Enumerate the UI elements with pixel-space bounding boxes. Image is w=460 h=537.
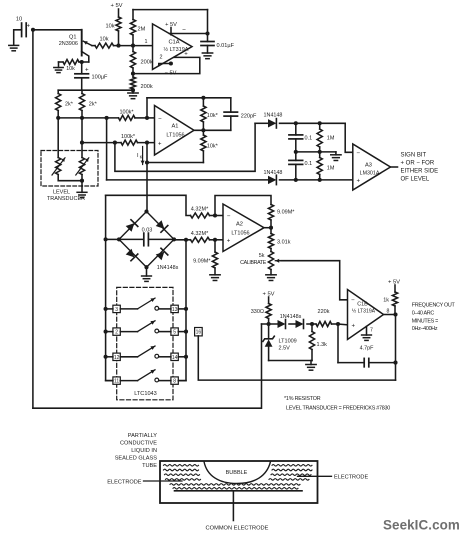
- wire feedback rail drop: [207, 10, 209, 34]
- wire 10k lower to plus node: [147, 162, 203, 164]
- svg-text:½ LT319A: ½ LT319A: [352, 308, 376, 315]
- svg-text:10k*: 10k*: [207, 144, 219, 150]
- wire C1A feedback rail: [133, 9, 208, 11]
- svg-text:1.3k: 1.3k: [317, 342, 328, 348]
- wire input node to C1A pin 1: [133, 39, 153, 45]
- zener LT1009 2.5V: [263, 324, 297, 361]
- svg-text:9.09M*: 9.09M*: [277, 210, 295, 216]
- common electrode plate: [175, 490, 303, 492]
- wire reference row: [262, 323, 317, 325]
- svg-text:1N4148: 1N4148: [264, 170, 283, 176]
- capacitor 0.1 row1: [289, 123, 312, 152]
- svg-text:0.01µF: 0.01µF: [217, 43, 235, 49]
- wire 100uF node down-left: [57, 90, 59, 93]
- pin 8 label: [387, 308, 390, 314]
- svg-text:−: −: [351, 297, 355, 304]
- node left rail row 1: [104, 307, 108, 311]
- wire output feedback drop: [395, 315, 397, 381]
- wire zener 1.3k common: [269, 360, 312, 362]
- ground 0.01uF: [202, 53, 212, 59]
- svg-text:12: 12: [114, 355, 120, 361]
- variable resistor transducer right: [76, 158, 89, 176]
- node upper 100k left: [105, 116, 109, 120]
- wire bottom rail to LT1009 node: [33, 324, 262, 408]
- svg-text:0Hz–400Hz: 0Hz–400Hz: [412, 326, 438, 332]
- wire 4.7pF left to input node: [337, 324, 339, 363]
- node right rail top: [184, 238, 188, 242]
- svg-text:200k: 200k: [141, 60, 153, 66]
- node row1 res tap: [318, 121, 322, 125]
- diode bridge UR 1N4148: [147, 212, 175, 240]
- capacitor 0.1 row2: [289, 152, 312, 180]
- svg-text:TRANSDUCER: TRANSDUCER: [47, 196, 85, 202]
- svg-text:−: −: [227, 213, 231, 220]
- capacitor 220pF: [224, 98, 257, 131]
- svg-text:13: 13: [172, 307, 178, 313]
- node left rail row 2: [104, 330, 108, 334]
- svg-text:3: 3: [115, 307, 118, 313]
- svg-text:SIGN BIT: SIGN BIT: [401, 153, 427, 159]
- wire A1 minus to feedback rail: [146, 98, 148, 118]
- svg-text:1M: 1M: [327, 165, 335, 171]
- resistor 2k* right: [79, 90, 97, 118]
- diode 1N4148 ref B: [280, 314, 304, 329]
- op-amp A2 LT1056: [223, 204, 264, 252]
- wire A1 output row: [194, 129, 231, 131]
- node bridge left vertex: [117, 237, 121, 241]
- node left rail bridge tap: [104, 237, 108, 241]
- svg-text:−: −: [158, 116, 162, 123]
- wire sensor to Q1 base: [33, 29, 82, 31]
- power +5V top-left: [110, 3, 122, 9]
- svg-text:FREQUENCY OUT: FREQUENCY OUT: [412, 303, 456, 309]
- sensor capacitor C-sense value 10: [16, 17, 31, 37]
- svg-text:2.5V: 2.5V: [279, 345, 291, 351]
- svg-text:+: +: [227, 239, 231, 245]
- resistor 1M row2: [317, 152, 335, 180]
- wire transducer right column: [81, 118, 83, 158]
- wire sensor left lead to ground: [14, 30, 22, 45]
- resistor 1M row1: [317, 123, 335, 152]
- wire A2 output: [264, 227, 271, 229]
- wire RC middle row: [296, 151, 336, 153]
- wire level sense B drop: [106, 118, 108, 180]
- note 1% resistor: [284, 396, 321, 402]
- svg-text:SEALED GLASS: SEALED GLASS: [115, 456, 158, 462]
- liquid waves: [164, 465, 313, 490]
- diode 1N4148 ref A: [278, 320, 286, 329]
- svg-text:+: +: [85, 67, 89, 74]
- svg-text:10k: 10k: [66, 66, 75, 72]
- svg-text:+: +: [27, 24, 31, 30]
- potentiometer 5k CALIBRATE: [240, 252, 281, 275]
- label partially conductive liquid: [115, 433, 158, 469]
- op-amp A3 LM301A: [353, 144, 391, 190]
- wire transducer bottom join: [58, 175, 82, 187]
- label common electrode: [206, 525, 269, 531]
- svg-text:LEVEL: LEVEL: [53, 190, 70, 196]
- svg-text:−: −: [356, 150, 360, 157]
- node A1 minus feedback tap: [145, 116, 149, 120]
- svg-text:EITHER SIDE: EITHER SIDE: [401, 169, 439, 175]
- wire C1B output: [384, 314, 396, 316]
- wire switch S2 right: [159, 331, 186, 333]
- node transducer common: [80, 179, 84, 183]
- switch S2 arm: [138, 321, 156, 332]
- node C1B output: [393, 312, 397, 316]
- node A1 plus input: [145, 141, 149, 145]
- wire calibrate wiper to C1B: [281, 261, 348, 300]
- svg-text:OF LEVEL: OF LEVEL: [401, 176, 430, 182]
- wire switch S2 left: [106, 331, 138, 333]
- wire switch S1 right: [159, 308, 186, 310]
- svg-text:9.09M*: 9.09M*: [193, 259, 211, 265]
- wire bridge right row: [175, 239, 191, 241]
- wire emitter node to C1A input node: [119, 45, 134, 47]
- svg-text:10k: 10k: [99, 37, 108, 43]
- svg-text:LT1056: LT1056: [231, 230, 249, 236]
- node 4.7pF right: [393, 361, 397, 365]
- glass tube outline: [160, 461, 318, 503]
- svg-text:5: 5: [173, 330, 176, 336]
- wire switch S4 right: [159, 380, 186, 382]
- svg-text:330Ω: 330Ω: [251, 309, 264, 315]
- wire A2 feedback loop: [215, 196, 271, 216]
- op-amp C1A half LT319A: [153, 24, 193, 70]
- switch S3 arm: [138, 346, 156, 357]
- wire A1 minus input row: [58, 117, 154, 119]
- wire switch S3 left: [106, 356, 138, 358]
- svg-text:10k*: 10k*: [207, 113, 219, 119]
- svg-text:0.1: 0.1: [305, 161, 313, 167]
- label frequency out: [412, 303, 456, 333]
- resistor 10k pull-up from +5V: [105, 9, 121, 46]
- wire transducer left column: [57, 118, 59, 158]
- svg-text:MINUTES =: MINUTES =: [412, 318, 438, 324]
- wire 100uF bottom to 200k ground: [58, 89, 133, 91]
- svg-text:100k*: 100k*: [121, 134, 136, 140]
- svg-text:*1% RESISTOR: *1% RESISTOR: [284, 396, 321, 402]
- wire A1 plus input row: [82, 142, 155, 144]
- pin 7 ground C1B: [362, 327, 373, 341]
- node right rail row 1: [184, 307, 188, 311]
- wire switch S4 left: [106, 380, 138, 382]
- node lower 100k left: [113, 141, 117, 145]
- switch S3 pin 14 square: [171, 353, 178, 361]
- svg-text:7: 7: [370, 328, 373, 334]
- resistor 220k: [316, 309, 338, 326]
- resistor 10k* feedback lower: [201, 130, 219, 162]
- ground reference: [306, 361, 316, 371]
- svg-text:A1: A1: [172, 123, 179, 129]
- resistor 4.32M* lower: [191, 231, 224, 242]
- label right electrode: [334, 475, 368, 481]
- svg-text:10k: 10k: [105, 24, 114, 30]
- svg-text:SeekIC.com: SeekIC.com: [383, 518, 460, 533]
- node collector: [80, 60, 84, 64]
- power +5V C1A: [165, 22, 177, 35]
- wire level sense A drop: [115, 123, 255, 171]
- label sign bit output: [401, 153, 439, 183]
- resistor 10k* feedback upper: [201, 98, 219, 131]
- svg-text:2k*: 2k*: [89, 102, 98, 108]
- svg-text:+ OR − FOR: + OR − FOR: [401, 161, 435, 167]
- node 330 bottom: [267, 322, 271, 326]
- svg-text:+ 5V: + 5V: [110, 3, 122, 9]
- svg-text:0–40 ARC: 0–40 ARC: [412, 310, 435, 316]
- switch S2 pin 2 square: [113, 328, 120, 336]
- svg-text:100k*: 100k*: [119, 109, 134, 115]
- node 4.7pF tap: [336, 322, 340, 326]
- pin 16 square: [195, 328, 203, 336]
- switch S1 pin 13 square: [171, 305, 178, 313]
- svg-text:1N4148: 1N4148: [264, 113, 283, 119]
- svg-text:11: 11: [114, 379, 119, 385]
- node mid row res: [318, 150, 322, 154]
- svg-text:+: +: [352, 324, 356, 330]
- node Ik junction: [145, 160, 149, 164]
- capacitor 0.01uF: [201, 34, 235, 54]
- ground transducer: [77, 186, 87, 198]
- svg-text:0.03: 0.03: [142, 228, 153, 234]
- svg-text:1N4148s: 1N4148s: [280, 314, 302, 320]
- resistor 1.3k: [309, 324, 327, 361]
- svg-text:LM301A: LM301A: [360, 170, 380, 176]
- node mid row cap: [294, 150, 298, 154]
- node 2k right bottom: [80, 116, 84, 120]
- svg-text:220pF: 220pF: [241, 113, 257, 119]
- ground calibrate pot: [266, 275, 276, 281]
- resistor 100k* lower: [121, 134, 138, 145]
- power +5V output pull-up: [388, 280, 400, 286]
- wire detector row 1: [255, 122, 345, 124]
- pin 2 C1A and -5V supply: [159, 55, 177, 77]
- resistor 1k pull-up: [383, 285, 397, 315]
- label level transducer: [47, 190, 85, 203]
- wire far-left rail down: [32, 30, 34, 408]
- svg-text:+: +: [158, 141, 162, 147]
- wire 220k to C1B plus: [338, 323, 348, 326]
- svg-text:A3: A3: [365, 162, 372, 168]
- switch S4 arm: [138, 370, 156, 381]
- resistor 3.01k: [268, 228, 290, 252]
- svg-text:PARTIALLY: PARTIALLY: [128, 433, 157, 439]
- label bridge diodes: [157, 265, 179, 271]
- svg-text:200k: 200k: [141, 84, 153, 90]
- svg-text:ELECTRODE: ELECTRODE: [334, 475, 368, 481]
- svg-text:K: K: [140, 155, 143, 160]
- svg-text:C1B: C1B: [357, 302, 368, 308]
- watermark SeekIC.com: [383, 518, 460, 533]
- svg-text:LIQUID IN: LIQUID IN: [131, 448, 157, 454]
- ground Q1 collector resistor: [54, 62, 63, 73]
- svg-text:16: 16: [196, 330, 202, 336]
- svg-text:BUBBLE: BUBBLE: [226, 470, 248, 476]
- svg-text:4.32M*: 4.32M*: [191, 231, 209, 237]
- wire common electrode lead: [232, 491, 234, 521]
- wire detector row 2: [107, 179, 353, 181]
- label left electrode: [107, 479, 141, 485]
- svg-text:+: +: [184, 52, 188, 58]
- svg-text:LT1009: LT1009: [279, 338, 297, 344]
- svg-text:−: −: [182, 27, 186, 34]
- transistor Q1 2N3906: [59, 30, 92, 62]
- node C1A output: [205, 31, 209, 35]
- ground bridge: [142, 267, 152, 281]
- resistor 10k Q1 emitter: [92, 37, 119, 48]
- wire Howland output to bridge: [146, 143, 148, 212]
- svg-text:2M: 2M: [138, 27, 146, 33]
- svg-text:LT1056: LT1056: [166, 133, 184, 139]
- svg-text:1: 1: [145, 39, 148, 45]
- wire right switch rail: [178, 240, 186, 381]
- capacitor 0.03 bridge: [119, 228, 174, 246]
- svg-text:2k*: 2k*: [65, 102, 74, 108]
- resistor 2M: [130, 10, 145, 46]
- diode bridge LR 1N4148: [147, 239, 175, 267]
- svg-text:5k: 5k: [259, 253, 265, 259]
- node row2 cap tap: [294, 178, 298, 182]
- svg-text:CONDUCTIVE: CONDUCTIVE: [120, 440, 157, 446]
- ground sensor: [9, 45, 19, 50]
- node bridge right vertex: [172, 237, 176, 241]
- wire left switch rail: [106, 195, 113, 380]
- svg-text:ELECTRODE: ELECTRODE: [107, 479, 141, 485]
- wire right electrode lead: [298, 475, 332, 477]
- wire A1 feedback rail: [147, 97, 231, 99]
- node bridge top vertex: [144, 209, 148, 213]
- level transducer dashed box: [41, 151, 98, 187]
- svg-text:14: 14: [172, 355, 178, 361]
- svg-text:C1A: C1A: [168, 40, 179, 46]
- node A1 output: [201, 128, 205, 132]
- note level transducer fredericks: [286, 406, 390, 412]
- svg-text:8: 8: [173, 379, 176, 385]
- wire A3 output: [391, 166, 398, 168]
- capacitor 4.7pF: [338, 346, 396, 367]
- LTC1043 dashed box: [117, 287, 173, 399]
- resistor 4.32M* upper: [191, 207, 224, 218]
- svg-text:4.32M*: 4.32M*: [191, 207, 209, 213]
- diode 1N4148 row1: [264, 113, 283, 128]
- node sensor output: [31, 28, 35, 32]
- variable resistor transducer left: [52, 158, 65, 176]
- bubble dome: [204, 462, 271, 484]
- op-amp A1 LT1056: [155, 106, 195, 156]
- node A2 output: [269, 226, 273, 230]
- switch S4 pin 11 square: [113, 377, 120, 385]
- resistor 9.09M* feedback: [268, 205, 295, 228]
- wire row1 to A3 minus: [345, 123, 353, 152]
- svg-text:Q1: Q1: [69, 34, 76, 40]
- wire switch S1 left: [106, 308, 138, 310]
- switch S1 contact: [155, 306, 159, 310]
- switch S2 contact: [155, 329, 159, 333]
- node row1 cap tap: [294, 121, 298, 125]
- node 100uF return junction: [131, 88, 135, 92]
- svg-text:8: 8: [387, 308, 390, 314]
- resistor 200k lower: [130, 74, 152, 91]
- switch S4 pin 8 square: [171, 377, 178, 385]
- ground RC network: [331, 152, 341, 161]
- svg-text:4.7pF: 4.7pF: [360, 346, 374, 352]
- svg-text:1M: 1M: [327, 135, 335, 141]
- node A2 plus input: [213, 238, 217, 242]
- switch S3 contact: [155, 354, 159, 358]
- node A1 plus pickoff: [80, 141, 84, 145]
- svg-text:0.1: 0.1: [305, 135, 313, 141]
- node A2 minus input: [213, 213, 217, 217]
- wire bridge top rail: [106, 195, 191, 215]
- node 220k left: [310, 322, 314, 326]
- wire C1A minus output: [169, 27, 207, 34]
- resistor 330 ohm: [251, 297, 271, 324]
- current arrow Ik: [137, 147, 145, 165]
- switch S4 contact: [155, 378, 159, 382]
- svg-text:2N3906: 2N3906: [59, 41, 78, 47]
- svg-text:CALIBRATE: CALIBRATE: [240, 260, 267, 266]
- resistor 100k* upper: [119, 109, 136, 120]
- capacitor 100uF: [75, 62, 108, 90]
- svg-text:2: 2: [115, 330, 118, 336]
- node C1A input: [131, 44, 135, 48]
- node left rail row 3: [104, 355, 108, 359]
- resistor 9.09M* to ground: [193, 240, 218, 275]
- switch S1 arm: [138, 298, 156, 309]
- switch S1 pin 3 square: [113, 305, 120, 313]
- switch S2 pin 5 square: [171, 328, 178, 336]
- node 2k left bottom: [56, 116, 60, 120]
- wire C1A plus output hysteresis: [133, 52, 200, 74]
- diode 1N4148 row2: [264, 170, 283, 185]
- node feedback rail tap: [201, 96, 205, 100]
- node bridge bottom vertex: [144, 265, 148, 269]
- svg-text:100µF: 100µF: [92, 74, 109, 80]
- svg-text:1N4148s: 1N4148s: [157, 265, 179, 271]
- ground 9.09M: [210, 275, 220, 281]
- svg-text:A2: A2: [236, 221, 243, 227]
- resistor 10k Q1 collector to ground: [59, 60, 89, 73]
- node 200k junction: [131, 72, 135, 76]
- power +5V reference: [262, 292, 274, 298]
- svg-text:+ 5V: + 5V: [388, 280, 400, 286]
- node right rail row 2: [184, 330, 188, 334]
- svg-text:3.01k: 3.01k: [277, 240, 291, 246]
- op-amp C1B half LT319A: [348, 290, 384, 340]
- switch S3 pin 12 square: [113, 353, 120, 361]
- svg-text:1k: 1k: [383, 298, 389, 304]
- svg-text:TUBE: TUBE: [142, 463, 157, 469]
- svg-text:+: +: [356, 178, 360, 184]
- svg-text:10: 10: [16, 17, 22, 23]
- ground 200k chain: [128, 90, 138, 98]
- diode bridge UL 1N4148: [119, 212, 147, 240]
- resistor 2k* left: [56, 94, 74, 118]
- node right rail row 3: [184, 355, 188, 359]
- svg-text:LEVEL TRANSDUCER = FREDERICKS: LEVEL TRANSDUCER = FREDERICKS #7830: [286, 406, 390, 412]
- svg-text:LTC1043: LTC1043: [134, 391, 157, 397]
- wire bridge left to rail: [106, 238, 119, 240]
- diode bridge LL 1N4148: [119, 239, 147, 267]
- wire left electrode lead: [144, 480, 183, 482]
- node row2 res tap: [318, 178, 322, 182]
- wire pin 16 clock line: [198, 336, 395, 380]
- svg-text:2: 2: [160, 55, 163, 61]
- node emitter junction: [116, 44, 120, 48]
- svg-text:COMMON ELECTRODE: COMMON ELECTRODE: [206, 525, 269, 531]
- resistor 200k upper: [130, 46, 152, 74]
- svg-text:220k: 220k: [318, 309, 330, 315]
